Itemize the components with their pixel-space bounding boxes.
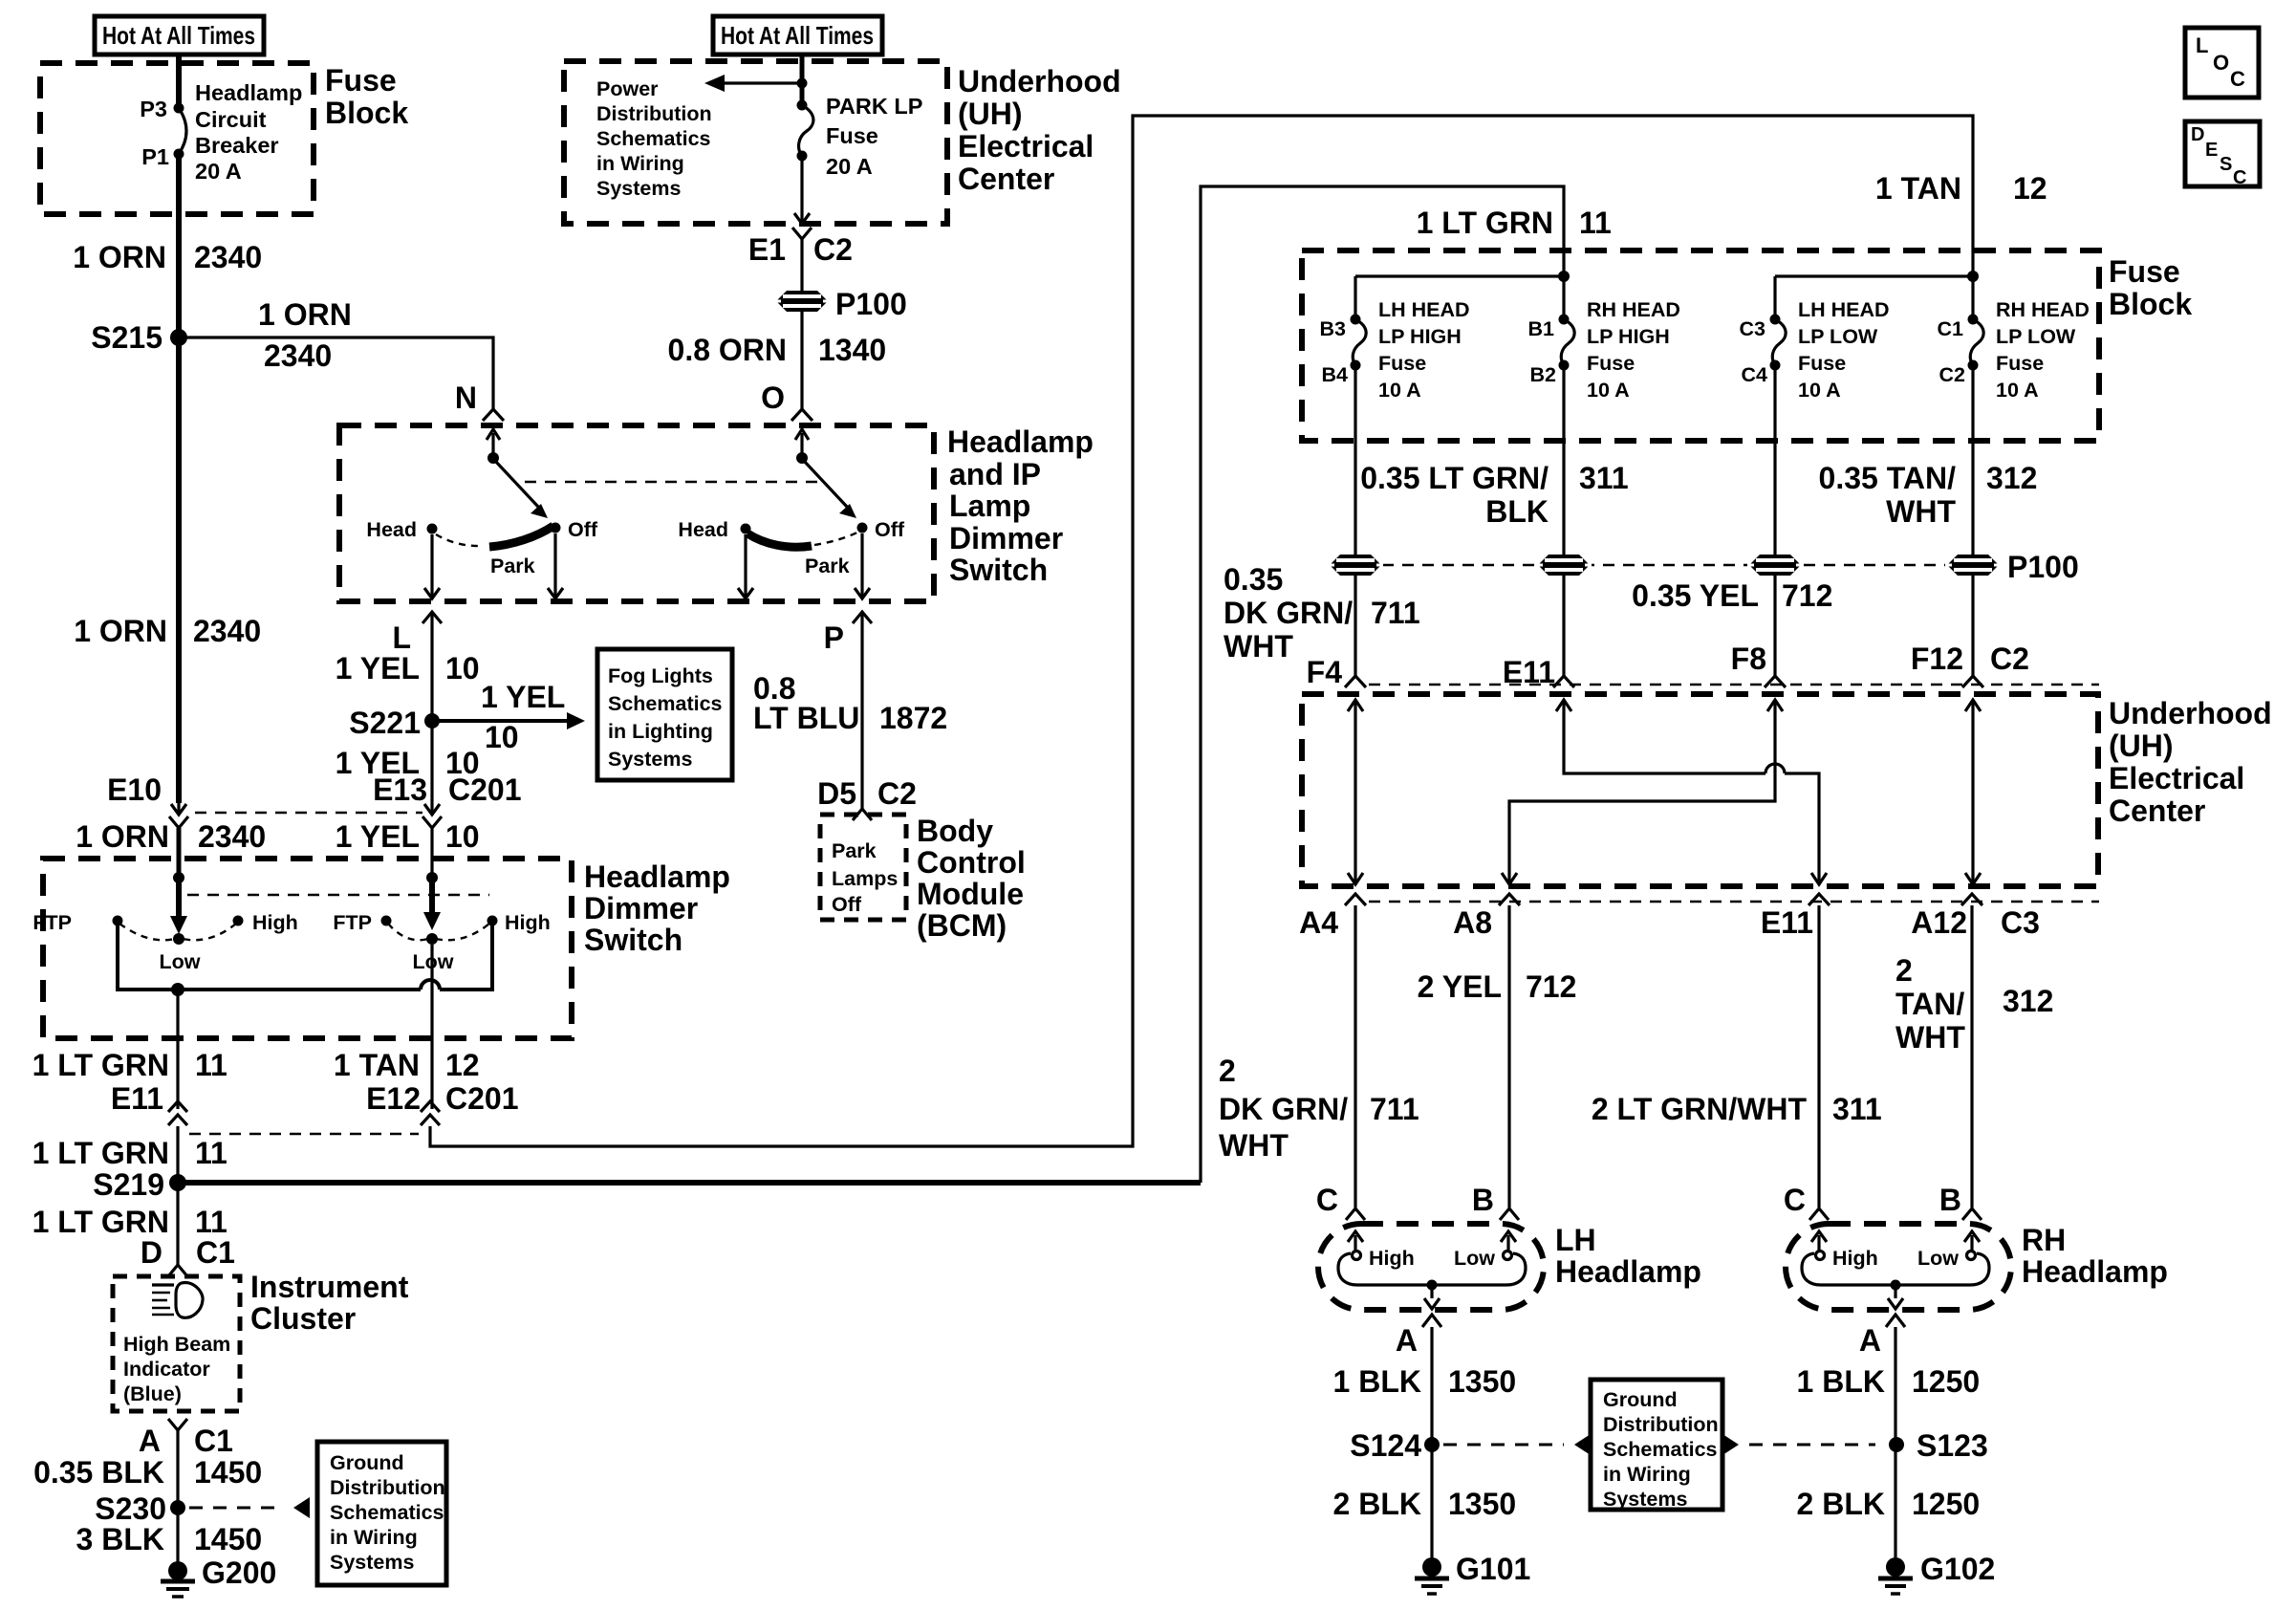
Fuse Block label (right): [2109, 254, 2192, 321]
svg-text:Systems: Systems: [596, 177, 681, 200]
svg-text:FTP: FTP: [32, 911, 72, 934]
wire RH A to G102: [1894, 1327, 1896, 1567]
svg-text:1350: 1350: [1448, 1364, 1516, 1399]
svg-text:RH HEAD: RH HEAD: [1587, 298, 1680, 321]
wire Hot2 into UH center: [800, 54, 805, 105]
wire E11 to S219: [176, 1126, 179, 1183]
svg-text:1 ORN: 1 ORN: [74, 614, 167, 648]
svg-text:E10: E10: [107, 772, 162, 807]
thick arc Park-Off 1: [489, 526, 553, 547]
splice S124: [1350, 1428, 1440, 1463]
svg-text:D: D: [141, 1235, 162, 1270]
Headlamp Dimmer Switch label: [584, 859, 730, 957]
wire label 1 BLK 1250: [1797, 1364, 1981, 1399]
svg-text:Hot At All Times: Hot At All Times: [721, 21, 874, 50]
wire Low1 branch down out of box: [176, 990, 179, 1109]
wire S219 feed to fuse block (thick): [178, 1180, 1201, 1186]
Ground Distribution Schematics box (left): [317, 1442, 446, 1585]
svg-text:1 LT GRN: 1 LT GRN: [32, 1205, 169, 1239]
Ground Distribution Schematics box (right): [1591, 1380, 1722, 1511]
fuse PARK LP 20 A: [797, 94, 923, 179]
terminal Low 2: [413, 933, 454, 973]
splice S230: [95, 1491, 185, 1526]
wire label 1 LT GRN 11: [32, 1048, 227, 1082]
svg-text:1 LT GRN: 1 LT GRN: [1417, 206, 1553, 240]
svg-text:C1: C1: [194, 1424, 233, 1458]
svg-text:Electrical: Electrical: [958, 129, 1094, 163]
svg-text:B1: B1: [1528, 317, 1555, 340]
svg-text:711: 711: [1370, 1092, 1419, 1126]
svg-text:Circuit: Circuit: [195, 107, 267, 132]
svg-text:in Wiring: in Wiring: [330, 1526, 418, 1549]
connector labels C B (LH): [1316, 1183, 1494, 1217]
svg-text:Systems: Systems: [330, 1551, 414, 1574]
svg-text:Park: Park: [805, 555, 850, 577]
svg-text:10 A: 10 A: [1996, 379, 2039, 402]
junction dot on link: [171, 983, 184, 996]
svg-text:Headlamp: Headlamp: [947, 424, 1094, 459]
svg-text:E1: E1: [748, 232, 786, 267]
svg-text:11: 11: [195, 1136, 227, 1170]
svg-text:S215: S215: [91, 320, 162, 355]
UH route F4-A4 (711) double arrow: [1348, 700, 1363, 884]
Hot At All Times box (middle): [713, 16, 882, 54]
svg-text:Module: Module: [917, 877, 1024, 911]
fuse RH HEAD LP LOW 10 A: [1938, 298, 2090, 402]
svg-text:1 ORN: 1 ORN: [73, 240, 166, 274]
svg-text:C1: C1: [1938, 317, 1964, 340]
wire label 0.8 ORN 1340: [668, 333, 887, 367]
dashed arc Park-Off 2: [814, 532, 859, 545]
female carets at UH top: [1345, 676, 1366, 687]
svg-text:0.8 ORN: 0.8 ORN: [668, 333, 787, 367]
terminal Head 2: [678, 518, 750, 541]
switch2 pivot: [796, 452, 808, 464]
Underhood (UH) Electrical Center dashed box (top): [564, 61, 947, 224]
svg-text:3 BLK: 3 BLK: [76, 1522, 164, 1556]
connector dashed line C3: [1369, 901, 2099, 903]
grommet P100 (middle): [774, 287, 907, 321]
svg-text:S230: S230: [95, 1491, 166, 1526]
svg-text:Cluster: Cluster: [250, 1301, 356, 1336]
svg-text:Instrument: Instrument: [250, 1270, 409, 1304]
connector labels F4 E11 F8 F12 C2: [1307, 642, 2029, 689]
connector E1 C2 (female): [748, 228, 853, 267]
svg-text:LP HIGH: LP HIGH: [1378, 325, 1462, 348]
svg-text:20 A: 20 A: [195, 159, 242, 184]
wire label 0.8 LT BLU 1872: [753, 671, 947, 735]
svg-text:12: 12: [2013, 171, 2047, 206]
svg-text:Off: Off: [568, 518, 598, 541]
svg-text:C2: C2: [813, 232, 853, 267]
wire P1 to S215: [176, 154, 182, 337]
Hot At All Times box (left): [95, 16, 264, 54]
connector D C1 (female): [141, 1235, 235, 1276]
svg-text:1 BLK: 1 BLK: [1797, 1364, 1885, 1399]
svg-text:1340: 1340: [818, 333, 886, 367]
grommet dashed line: [1382, 564, 1996, 566]
wire label 1 ORN 2340: [76, 819, 266, 854]
svg-text:1 BLK: 1 BLK: [1333, 1364, 1421, 1399]
svg-text:High: High: [252, 911, 298, 934]
ground G101: [1415, 1552, 1530, 1594]
fuse LH HEAD LP LOW 10 A: [1740, 298, 1890, 402]
svg-text:2340: 2340: [198, 819, 266, 854]
wire label 3 BLK 1450: [76, 1522, 263, 1556]
LH Headlamp label: [1555, 1223, 1701, 1289]
switch2 arm to Off: [804, 461, 856, 518]
ground G200: [161, 1556, 276, 1597]
splice S219: [93, 1167, 186, 1202]
Headlamp Dimmer Switch dashed box: [43, 859, 572, 1038]
wire E1 to P100: [800, 239, 803, 291]
svg-text:Lamps: Lamps: [832, 867, 898, 890]
wire S219 route up to fuse block: [1201, 186, 1564, 1183]
svg-text:B3: B3: [1320, 317, 1347, 340]
svg-text:P100: P100: [2007, 550, 2079, 584]
svg-text:L: L: [392, 620, 411, 655]
svg-text:10: 10: [485, 720, 519, 754]
svg-text:(UH): (UH): [2109, 729, 2174, 763]
connector E10 (male arrow + female): [107, 772, 188, 828]
fuse LH HEAD LP HIGH 10 A: [1320, 298, 1470, 402]
svg-text:Off: Off: [832, 893, 862, 916]
UH route E11-E11 (311): [1556, 700, 1827, 884]
terminal FTP 2: [333, 911, 391, 934]
svg-text:C1: C1: [196, 1235, 235, 1270]
svg-text:Low: Low: [160, 950, 201, 973]
wires UH to headlamps: [1354, 905, 1356, 1207]
svg-text:Center: Center: [2109, 794, 2205, 828]
svg-text:Low: Low: [1454, 1247, 1495, 1270]
svg-text:S123: S123: [1917, 1428, 1988, 1463]
svg-text:2340: 2340: [193, 614, 261, 648]
svg-text:WHT: WHT: [1224, 629, 1293, 664]
terminal Head 1: [366, 518, 437, 541]
svg-text:E13: E13: [373, 772, 427, 807]
svg-text:High: High: [1369, 1247, 1415, 1270]
svg-text:712: 712: [1782, 578, 1832, 613]
svg-text:2340: 2340: [194, 240, 262, 274]
svg-text:Power: Power: [596, 77, 659, 100]
terminal High 1: [233, 911, 298, 934]
svg-text:F12: F12: [1911, 642, 1963, 676]
svg-text:Fuse: Fuse: [1378, 352, 1426, 375]
wire S215 down to E10: [176, 337, 182, 803]
RH bulb element: [1802, 1231, 1989, 1309]
svg-text:Breaker: Breaker: [195, 133, 279, 158]
wire label 0.35 BLK 1450: [33, 1455, 262, 1490]
svg-text:PARK LP: PARK LP: [826, 94, 922, 119]
svg-text:O: O: [761, 381, 785, 415]
grommet P100 (4): [1945, 550, 2079, 584]
mechanical link dashed (upper): [525, 481, 820, 483]
svg-text:Headlamp: Headlamp: [584, 859, 730, 894]
wire label 1 LT GRN 11: [32, 1205, 227, 1239]
svg-text:D: D: [2191, 124, 2204, 145]
splice S123: [1889, 1428, 1988, 1463]
svg-text:E11: E11: [1761, 905, 1813, 940]
svg-text:and IP: and IP: [949, 457, 1041, 491]
Power Distribution Schematics in Wiring Systems label: [596, 77, 712, 200]
switch1 arm to Off: [495, 461, 548, 518]
wire E12 route to fuse block: right, up, right, down: [430, 116, 1973, 1146]
switch1 Head output arrow: [424, 534, 440, 598]
RH Headlamp label: [2022, 1223, 2168, 1289]
wire S215 to N (branch): [179, 337, 493, 409]
grommet P100 (3): [1747, 555, 1803, 576]
svg-text:LH: LH: [1555, 1223, 1596, 1257]
svg-text:0.35 TAN/: 0.35 TAN/: [1819, 461, 1957, 495]
svg-text:2 LT GRN/WHT: 2 LT GRN/WHT: [1592, 1092, 1808, 1126]
Underhood Electrical Center label: [958, 64, 1121, 196]
svg-text:20 A: 20 A: [826, 154, 873, 179]
connector E12 C201 (double chevron): [366, 1081, 518, 1125]
svg-text:0.35 BLK: 0.35 BLK: [33, 1455, 164, 1490]
svg-text:1250: 1250: [1912, 1487, 1980, 1521]
svg-text:in Lighting: in Lighting: [608, 720, 713, 743]
svg-text:Fog Lights: Fog Lights: [608, 664, 713, 687]
feeder node LT GRN: [1558, 271, 1570, 282]
svg-text:High: High: [1832, 1247, 1878, 1270]
wire label 1 YEL 10: [336, 651, 480, 685]
svg-text:O: O: [2213, 51, 2229, 75]
splice S221: [349, 706, 440, 740]
svg-text:Systems: Systems: [608, 748, 692, 771]
svg-text:Distribution: Distribution: [596, 102, 712, 125]
svg-text:1450: 1450: [194, 1455, 262, 1490]
svg-text:1 YEL: 1 YEL: [481, 680, 565, 714]
wire label 1 TAN 12 (top right): [1875, 171, 2047, 206]
svg-text:E12: E12: [366, 1081, 421, 1116]
Body Control Module dashed box: [820, 815, 906, 920]
svg-text:Schematics: Schematics: [1603, 1438, 1718, 1461]
Underhood (UH) Electrical Center dashed box (right): [1302, 694, 2098, 886]
connector E13 C201 (male arrow + female): [373, 772, 521, 828]
svg-text:2 BLK: 2 BLK: [1797, 1487, 1885, 1521]
grommet P100 (1): [1328, 555, 1383, 576]
svg-text:High: High: [505, 911, 551, 934]
svg-text:B: B: [1939, 1183, 1961, 1217]
wire Hot1 to fuse block: [176, 54, 182, 108]
connector A (LH, female): [1396, 1315, 1441, 1358]
svg-text:Ground: Ground: [1603, 1388, 1678, 1411]
svg-text:Underhood: Underhood: [2109, 696, 2272, 730]
svg-text:1 TAN: 1 TAN: [334, 1048, 420, 1082]
svg-text:C: C: [1784, 1183, 1806, 1217]
svg-text:B4: B4: [1322, 363, 1349, 386]
svg-text:11: 11: [1579, 206, 1612, 240]
FTP1 to High2 link wire: [118, 924, 421, 990]
svg-text:WHT: WHT: [1219, 1128, 1289, 1163]
UH route F12-A12 (312) double arrow: [1965, 700, 1981, 884]
svg-text:P: P: [824, 620, 844, 655]
connector L (female): [392, 612, 442, 655]
svg-text:312: 312: [2003, 984, 2053, 1018]
switch2 Head output arrow: [738, 534, 753, 598]
wire label 1 LT GRN 11 (top): [1417, 206, 1612, 240]
svg-text:Headlamp: Headlamp: [2022, 1254, 2168, 1289]
svg-text:P1: P1: [141, 144, 169, 169]
svg-text:Low: Low: [1917, 1247, 1959, 1270]
svg-text:Dimmer: Dimmer: [584, 891, 698, 925]
svg-text:Control: Control: [917, 845, 1026, 880]
Instrument Cluster dashed box: [113, 1276, 240, 1411]
svg-text:D5: D5: [817, 776, 856, 811]
svg-text:B: B: [1472, 1183, 1494, 1217]
svg-text:Headlamp: Headlamp: [1555, 1254, 1701, 1289]
svg-text:RH HEAD: RH HEAD: [1996, 298, 2090, 321]
mechanical link dashed: [187, 894, 489, 896]
Fuse Block (left) dashed box: [40, 63, 314, 214]
svg-text:Fuse: Fuse: [1587, 352, 1635, 375]
svg-text:2 BLK: 2 BLK: [1333, 1487, 1421, 1521]
wire label 2 BLK 1350: [1333, 1487, 1517, 1521]
svg-text:P100: P100: [835, 287, 907, 321]
wire A to G200: [176, 1430, 179, 1571]
svg-text:2: 2: [1895, 953, 1913, 988]
svg-text:Systems: Systems: [1603, 1488, 1687, 1511]
svg-text:1350: 1350: [1448, 1487, 1516, 1521]
dashed arc Head-Park 1: [436, 534, 483, 546]
wire S219 down: [176, 1183, 179, 1265]
connector labels C B (RH): [1784, 1183, 1961, 1217]
connector P (female): [824, 612, 872, 655]
connector dashed line E10-E13: [195, 812, 422, 814]
svg-text:S: S: [2220, 154, 2232, 175]
svg-text:Body: Body: [917, 814, 993, 848]
splice S215: [91, 320, 187, 355]
svg-text:C201: C201: [448, 772, 522, 807]
svg-text:LP LOW: LP LOW: [1798, 325, 1878, 348]
svg-text:A: A: [1396, 1323, 1418, 1358]
dashed arc Low2-High2: [436, 924, 489, 940]
svg-text:BLK: BLK: [1485, 494, 1549, 529]
wire label 1 ORN 2340 (branch): [258, 297, 352, 373]
Headlamp and IP Lamp Dimmer Switch label: [947, 424, 1094, 587]
svg-text:C: C: [2230, 67, 2245, 91]
S230 dashed reference with arrow: [189, 1497, 310, 1518]
svg-text:Schematics: Schematics: [608, 692, 723, 715]
dashed arc FTP2-Low2: [388, 924, 428, 940]
svg-text:LH HEAD: LH HEAD: [1378, 298, 1470, 321]
connector D5 C2 (female): [817, 776, 917, 820]
svg-text:312: 312: [1986, 461, 2037, 495]
svg-text:Underhood: Underhood: [958, 64, 1121, 98]
Fuse Block (right) dashed box: [1302, 250, 2099, 441]
connector E11 (double chevron): [111, 1081, 187, 1125]
svg-text:Distribution: Distribution: [1603, 1413, 1719, 1436]
svg-text:311: 311: [1832, 1092, 1882, 1126]
svg-text:2: 2: [1219, 1054, 1236, 1088]
svg-text:P3: P3: [140, 97, 167, 121]
svg-text:C3: C3: [1740, 317, 1766, 340]
terminal Off 1: [551, 518, 598, 541]
connector dashed line C201: [189, 1133, 419, 1135]
svg-text:Switch: Switch: [949, 553, 1048, 587]
wire L to S221: [430, 612, 433, 721]
svg-text:C2: C2: [877, 776, 917, 811]
connector A (RH, female): [1859, 1315, 1905, 1358]
svg-text:C: C: [2233, 167, 2246, 188]
female carets below UH box: [1345, 894, 1366, 905]
svg-text:(BCM): (BCM): [917, 908, 1007, 943]
fuse RH HEAD LP HIGH 10 A: [1528, 298, 1680, 402]
svg-text:A12: A12: [1911, 905, 1967, 940]
svg-text:Center: Center: [958, 162, 1054, 196]
switch1 entry arrow: [487, 429, 500, 458]
svg-text:L: L: [2196, 33, 2208, 57]
svg-text:A8: A8: [1453, 905, 1492, 940]
svg-text:Fuse: Fuse: [826, 123, 878, 148]
LOC legend box: [2185, 28, 2259, 98]
svg-text:1 LT GRN: 1 LT GRN: [32, 1048, 169, 1082]
Instrument Cluster label: [250, 1270, 409, 1336]
feeder node TAN: [1967, 271, 1979, 282]
svg-text:1 ORN: 1 ORN: [258, 297, 352, 332]
svg-text:Schematics: Schematics: [330, 1501, 444, 1524]
switch2 entry arrow: [795, 429, 809, 458]
svg-text:Schematics: Schematics: [596, 127, 711, 150]
svg-text:711: 711: [1371, 596, 1420, 630]
feeder drops: [1354, 276, 1356, 319]
RH Headlamp dashed stadium: [1786, 1224, 2011, 1310]
terminal Low 1: [160, 933, 201, 973]
switch 2 wiper arrow (thick): [423, 878, 441, 930]
svg-text:10: 10: [445, 651, 480, 685]
svg-text:1450: 1450: [194, 1522, 262, 1556]
wires fuse outputs to grommets: [1354, 365, 1356, 555]
svg-text:C2: C2: [1939, 363, 1966, 386]
Fuse Block label: [325, 63, 408, 130]
wires grommets to UH connector: [1354, 576, 1356, 676]
node on feed: [797, 78, 808, 89]
svg-text:Park: Park: [490, 555, 535, 577]
svg-text:C201: C201: [445, 1081, 519, 1116]
dimmer switch 1 input node: [173, 872, 184, 883]
wire label 1 ORN 2340: [73, 240, 262, 274]
svg-text:10 A: 10 A: [1798, 379, 1841, 402]
switch1 Off output arrow: [548, 533, 563, 598]
svg-text:DK GRN/: DK GRN/: [1224, 596, 1353, 630]
svg-text:Fuse: Fuse: [1798, 352, 1846, 375]
svg-text:F8: F8: [1731, 642, 1766, 676]
wire Low2 down out of box: [430, 945, 433, 1109]
wire label 1 YEL 10: [336, 819, 480, 854]
svg-text:1 TAN: 1 TAN: [1875, 171, 1961, 206]
switch1 pivot: [487, 452, 499, 464]
svg-text:E: E: [2205, 140, 2218, 161]
svg-text:10 A: 10 A: [1378, 379, 1421, 402]
svg-text:Head: Head: [366, 518, 417, 541]
svg-text:S124: S124: [1350, 1428, 1421, 1463]
grommet P100 (2): [1536, 555, 1592, 576]
Fog Lights Schematics in Lighting Systems box: [597, 649, 732, 780]
svg-text:A: A: [1859, 1323, 1881, 1358]
svg-text:11: 11: [195, 1205, 227, 1239]
wire LH A to G101: [1430, 1327, 1433, 1567]
wire S221 down to E13: [430, 721, 433, 803]
svg-text:Fuse: Fuse: [1996, 352, 2044, 375]
svg-text:Lamp: Lamp: [949, 489, 1030, 523]
svg-text:Fuse: Fuse: [2109, 254, 2180, 289]
svg-text:C4: C4: [1742, 363, 1768, 386]
switch 1 wiper arrow (thick): [170, 878, 187, 934]
svg-text:DK GRN/: DK GRN/: [1219, 1092, 1348, 1126]
wire label 1 YEL 10: [336, 746, 480, 780]
wire label 1 LT GRN 11: [32, 1136, 227, 1170]
svg-text:G200: G200: [202, 1556, 276, 1590]
